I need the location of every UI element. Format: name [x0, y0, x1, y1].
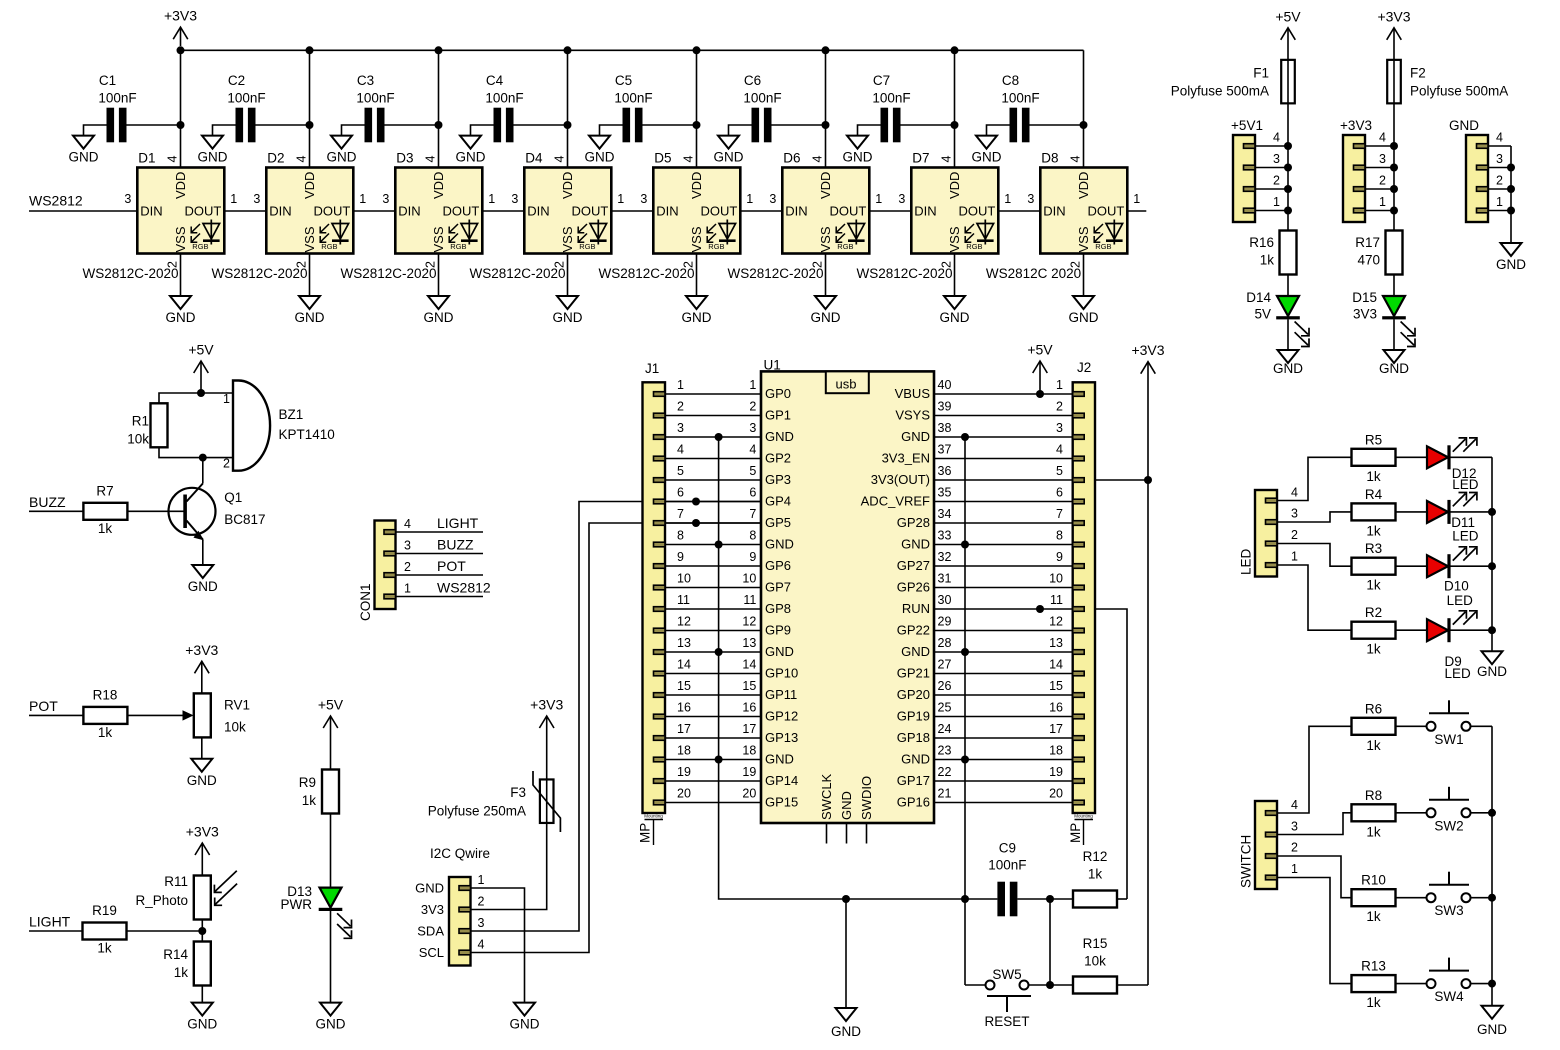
svg-text:3: 3 [1056, 421, 1063, 435]
svg-text:2: 2 [749, 400, 756, 414]
svg-text:VSS: VSS [689, 226, 704, 252]
svg-text:32: 32 [938, 550, 952, 564]
wire SCL [471, 523, 762, 953]
svg-text:GP22: GP22 [897, 623, 930, 638]
svg-text:9: 9 [677, 550, 684, 564]
svg-text:9: 9 [1056, 550, 1063, 564]
svg-text:DIN: DIN [785, 204, 807, 219]
svg-text:WS2812C-2020: WS2812C-2020 [82, 266, 178, 281]
svg-text:3: 3 [640, 192, 647, 206]
junction rail D3 [435, 46, 443, 54]
svg-text:1: 1 [746, 192, 753, 206]
svg-text:VSS: VSS [431, 226, 446, 252]
svg-text:GND: GND [166, 310, 196, 325]
svg-text:VDD: VDD [173, 172, 188, 199]
svg-text:22: 22 [938, 765, 952, 779]
svg-text:POT: POT [29, 698, 58, 714]
svg-text:3: 3 [1496, 152, 1503, 166]
ground connector GND [1501, 243, 1522, 256]
wire D13 to GND [330, 911, 332, 1003]
svg-text:4: 4 [404, 517, 411, 531]
svg-text:GP17: GP17 [897, 773, 930, 788]
svg-text:3: 3 [511, 192, 518, 206]
junction D9 bus [1488, 626, 1496, 634]
wire C5 to GND [600, 125, 623, 136]
J2 pin 20 wire [1073, 800, 1085, 805]
svg-text:3: 3 [898, 192, 905, 206]
junction +5V1 pin 1 [1284, 207, 1292, 215]
junction rail D4 [564, 46, 572, 54]
svg-text:GND: GND [1273, 361, 1303, 376]
usb box U1 [826, 371, 869, 393]
J2 pin 17 wire [1073, 736, 1085, 741]
ground C8 [976, 136, 997, 149]
wire I2C GND pin1 [471, 888, 525, 1003]
svg-text:DOUT: DOUT [829, 204, 866, 219]
svg-text:20: 20 [1049, 787, 1063, 801]
SWITCH pin 3 wire [1266, 832, 1278, 837]
WS2812 chip D7 [911, 168, 998, 254]
svg-text:R11: R11 [164, 874, 188, 889]
wire R12 to RUN rail [1117, 898, 1127, 900]
svg-text:C4: C4 [486, 73, 504, 88]
svg-text:GP28: GP28 [897, 515, 930, 530]
svg-text:D4: D4 [525, 151, 543, 166]
wire C9 junction down to SW5 [1049, 899, 1051, 985]
svg-text:VSS: VSS [302, 226, 317, 252]
svg-text:DIN: DIN [527, 204, 549, 219]
svg-text:GP15: GP15 [765, 795, 798, 810]
svg-text:GND: GND [901, 429, 930, 444]
svg-text:RGB: RGB [966, 242, 982, 251]
svg-text:D3: D3 [396, 151, 413, 166]
svg-text:GND: GND [839, 791, 854, 820]
J2 pin 8 wire [1073, 542, 1085, 547]
svg-text:WS2812: WS2812 [437, 580, 491, 596]
svg-text:11: 11 [743, 593, 756, 607]
J2 pin 1 wire [1073, 392, 1085, 397]
connector J2 [1073, 382, 1095, 813]
wire RUN to R12 branch [1095, 609, 1127, 899]
svg-text:DIN: DIN [1043, 204, 1065, 219]
wire R11 bottom [201, 920, 203, 942]
wire D9 to bus [1450, 629, 1492, 631]
junction right bus / bottom bus [961, 895, 969, 903]
wire VDD drop D6 [825, 50, 827, 167]
svg-text:GND: GND [316, 1017, 346, 1032]
svg-text:100nF: 100nF [872, 91, 910, 106]
wire D3.DOUT [482, 210, 524, 212]
junction VDD/C3 [435, 121, 443, 129]
ground I2C [514, 1003, 535, 1016]
svg-text:C3: C3 [357, 73, 374, 88]
svg-text:1k: 1k [302, 793, 317, 808]
svg-text:SWDIO: SWDIO [859, 776, 874, 820]
transistor Q1 BC817 [169, 488, 216, 535]
svg-text:7: 7 [677, 507, 684, 521]
LED symbol inside D1 [210, 220, 212, 245]
svg-text:I2C Qwire: I2C Qwire [430, 846, 490, 861]
wire LED GND bus [1491, 457, 1493, 651]
junction +5V1 pin 3 [1284, 164, 1292, 172]
wire SW3 to bus [1471, 897, 1493, 899]
svg-text:GND: GND [682, 310, 712, 325]
ground D4 [557, 296, 578, 309]
svg-text:10: 10 [1049, 572, 1063, 586]
ground D14 [1278, 350, 1299, 363]
+3V3 conn pin 2 [1354, 187, 1366, 192]
svg-text:RGB: RGB [192, 242, 208, 251]
emission arrows D15 [1401, 322, 1414, 335]
svg-text:GP9: GP9 [765, 623, 791, 638]
wire R6 to SW1 [1396, 725, 1427, 727]
svg-text:+3V3: +3V3 [1131, 342, 1164, 358]
svg-text:R18: R18 [93, 688, 118, 703]
svg-text:1k: 1k [1366, 578, 1381, 593]
svg-text:GND: GND [188, 579, 218, 594]
LED symbol inside D6 [855, 220, 857, 245]
svg-text:14: 14 [742, 658, 756, 672]
svg-text:WS2812C-2020: WS2812C-2020 [598, 266, 694, 281]
svg-text:GP1: GP1 [765, 408, 791, 423]
junction VDD/C7 [951, 121, 959, 129]
wire D14 to GND [1287, 319, 1289, 350]
svg-text:DOUT: DOUT [700, 204, 737, 219]
svg-text:GP18: GP18 [897, 730, 930, 745]
J1 pin 17 wire [654, 736, 666, 741]
svg-text:R6: R6 [1365, 701, 1382, 716]
J1 pin 5 wire [654, 478, 666, 483]
junction SW3 bus [1488, 894, 1496, 902]
svg-text:R4: R4 [1365, 487, 1383, 502]
svg-text:GP0: GP0 [765, 386, 791, 401]
svg-text:VSS: VSS [173, 226, 188, 252]
svg-text:PWR: PWR [281, 897, 313, 912]
ground C4 [460, 136, 481, 149]
ground D1 [170, 296, 191, 309]
svg-text:R1: R1 [132, 414, 149, 429]
wire F1 to connector [1287, 103, 1289, 231]
junction D10 bus [1488, 562, 1496, 570]
J1 pin 13 wire [654, 650, 666, 655]
svg-text:1k: 1k [1366, 909, 1381, 924]
svg-text:R2: R2 [1365, 605, 1382, 620]
J2 pin 7 wire [1073, 521, 1085, 526]
ground Q1 [192, 565, 213, 578]
svg-text:VDD: VDD [818, 172, 833, 199]
ground R14 [192, 1003, 213, 1016]
svg-text:BUZZ: BUZZ [437, 537, 474, 553]
svg-text:34: 34 [938, 507, 952, 521]
svg-text:SCL: SCL [419, 945, 444, 960]
ground C1 [73, 136, 94, 149]
wire D11 to bus [1450, 511, 1492, 513]
svg-text:2: 2 [1496, 173, 1503, 187]
ground D5 [686, 296, 707, 309]
svg-text:3: 3 [253, 192, 260, 206]
SWITCH pin 2 wire [1266, 854, 1278, 859]
J1 pin 7 wire [654, 521, 666, 526]
svg-text:VDD: VDD [689, 172, 704, 199]
svg-text:5: 5 [677, 464, 684, 478]
wire C4 to VDD [514, 124, 568, 126]
svg-text:26: 26 [938, 679, 952, 693]
svg-text:1: 1 [223, 392, 230, 406]
emission arrows D12 [1453, 439, 1466, 452]
svg-text:R3: R3 [1365, 541, 1382, 556]
svg-text:17: 17 [1049, 722, 1063, 736]
svg-text:3: 3 [404, 539, 411, 553]
svg-text:GND: GND [1379, 361, 1409, 376]
junction J1 GND row 8 [715, 541, 723, 549]
wire D8.DOUT [1127, 210, 1146, 212]
I2C pin 1 GND [459, 886, 471, 891]
svg-text:VSS: VSS [1076, 226, 1091, 252]
svg-text:8: 8 [677, 529, 684, 543]
svg-text:GP13: GP13 [765, 730, 798, 745]
svg-text:KPT1410: KPT1410 [279, 427, 335, 442]
J1 pin 1 wire [654, 392, 666, 397]
junction +5V1 pin 2 [1284, 185, 1292, 193]
wire VDD drop D5 [696, 50, 698, 167]
svg-text:GND: GND [901, 644, 930, 659]
junction VDD/C8 [1080, 121, 1088, 129]
junction J1 GND row 3 [715, 433, 723, 441]
wire SW1 to bus [1471, 725, 1493, 727]
svg-text:2: 2 [677, 400, 684, 414]
wire VDD drop D3 [438, 50, 440, 167]
svg-text:R19: R19 [92, 903, 117, 918]
svg-text:GP11: GP11 [765, 687, 797, 702]
J2 pin 12 wire [1073, 628, 1085, 633]
svg-text:GND: GND [1496, 257, 1526, 272]
ground center [836, 1008, 857, 1021]
junction U1 GND row 8 [961, 541, 969, 549]
svg-text:6: 6 [1056, 486, 1063, 500]
wire Q1 emitter to GND [202, 540, 204, 566]
svg-text:R7: R7 [96, 484, 113, 499]
svg-text:DIN: DIN [656, 204, 678, 219]
J2 pin 6 wire [1073, 499, 1085, 504]
svg-text:GP8: GP8 [765, 601, 791, 616]
svg-text:GND: GND [765, 752, 794, 767]
J1 pin 16 wire [654, 714, 666, 719]
J2 pin 2 wire [1073, 413, 1085, 418]
svg-text:C2: C2 [228, 73, 245, 88]
svg-text:4: 4 [1273, 130, 1280, 144]
emission arrows D10 [1453, 548, 1466, 561]
svg-text:SWITCH: SWITCH [1239, 835, 1254, 888]
svg-text:DIN: DIN [269, 204, 291, 219]
SWITCH pin 1 wire [1266, 875, 1278, 880]
svg-text:D10: D10 [1444, 579, 1469, 594]
junction SW2 bus [1488, 809, 1496, 817]
svg-text:12: 12 [742, 615, 756, 629]
connector LED [1255, 490, 1277, 577]
wire D7.VSS to GND [954, 254, 956, 297]
svg-text:J1: J1 [645, 361, 659, 376]
svg-text:DOUT: DOUT [442, 204, 479, 219]
svg-text:+5V: +5V [188, 342, 214, 358]
svg-text:DIN: DIN [398, 204, 420, 219]
svg-text:D5: D5 [654, 151, 671, 166]
svg-text:R8: R8 [1365, 788, 1382, 803]
svg-text:VSYS: VSYS [895, 408, 930, 423]
svg-text:2: 2 [1273, 173, 1280, 187]
svg-text:18: 18 [1049, 744, 1063, 758]
wire D8.VSS to GND [1083, 254, 1085, 297]
svg-text:1: 1 [1133, 192, 1140, 206]
svg-text:D15: D15 [1352, 290, 1377, 305]
wire F2 to connector [1393, 103, 1395, 231]
svg-text:7: 7 [1056, 507, 1063, 521]
svg-text:GND: GND [1069, 310, 1099, 325]
junction SW4 bus [1488, 980, 1496, 988]
svg-text:GND: GND [295, 310, 325, 325]
svg-text:12: 12 [677, 615, 691, 629]
wire F3 bottom to I2C pin2 [471, 823, 547, 910]
svg-text:100nF: 100nF [485, 91, 523, 106]
svg-text:POT: POT [437, 558, 466, 574]
svg-text:2: 2 [478, 895, 485, 909]
svg-text:SW2: SW2 [1434, 818, 1463, 833]
connector J1 [643, 382, 666, 813]
svg-text:R5: R5 [1365, 432, 1382, 447]
svg-text:F3: F3 [510, 785, 526, 800]
svg-text:1k: 1k [97, 941, 112, 956]
WS2812 chip D6 [782, 168, 869, 254]
svg-text:1k: 1k [1366, 469, 1381, 484]
wire RV1 bottom to GND [201, 737, 203, 758]
svg-text:MP: MP [1068, 823, 1083, 843]
svg-text:R14: R14 [163, 947, 188, 962]
LED D10 (red) [1427, 555, 1448, 577]
junction +3V3 pin 4 [1390, 142, 1398, 150]
J1 pin 12 wire [654, 628, 666, 633]
svg-text:LED: LED [1445, 666, 1472, 681]
WS2812 chip D8 [1040, 168, 1127, 254]
svg-text:GND: GND [765, 429, 794, 444]
svg-text:3: 3 [382, 192, 389, 206]
svg-text:GND: GND [1449, 118, 1479, 133]
svg-text:GND: GND [553, 310, 583, 325]
wire right GND bus [964, 437, 966, 899]
WS2812 chip D5 [653, 168, 740, 254]
svg-text:DIN: DIN [140, 204, 162, 219]
svg-text:+3V3: +3V3 [1377, 8, 1410, 24]
WS2812 chip D2 [266, 168, 353, 254]
svg-text:VDD: VDD [947, 172, 962, 199]
svg-text:D6: D6 [783, 151, 800, 166]
svg-text:14: 14 [677, 658, 691, 672]
junction J1 GND row 13 [715, 648, 723, 656]
J1 pin 11 wire [654, 607, 666, 612]
svg-text:WS2812C-2020: WS2812C-2020 [340, 266, 436, 281]
ground D3 [428, 296, 449, 309]
I2C pin 2 3V3 [459, 907, 471, 912]
wire SWITCH GND bus [1491, 726, 1493, 1006]
svg-text:4: 4 [424, 156, 438, 163]
svg-text:2: 2 [1291, 841, 1298, 855]
svg-text:SW5: SW5 [992, 967, 1021, 982]
svg-text:SW1: SW1 [1434, 732, 1463, 747]
J1 pin 6 wire [654, 499, 666, 504]
wire R1 bottom [159, 447, 203, 457]
svg-text:10: 10 [742, 572, 756, 586]
svg-text:WS2812C 2020: WS2812C 2020 [986, 266, 1081, 281]
svg-text:17: 17 [742, 722, 756, 736]
svg-text:C8: C8 [1002, 73, 1019, 88]
svg-text:C6: C6 [744, 73, 761, 88]
svg-text:LED: LED [1447, 593, 1474, 608]
svg-text:VDD: VDD [302, 172, 317, 199]
junction +3V3 pin 3 [1390, 164, 1398, 172]
CON1 pin 2 POT [384, 573, 396, 578]
J1 pin 9 wire [654, 564, 666, 569]
svg-text:WS2812C-2020: WS2812C-2020 [469, 266, 565, 281]
ground C2 [202, 136, 223, 149]
svg-text:VBUS: VBUS [895, 386, 931, 401]
svg-text:RGB: RGB [708, 242, 724, 251]
J2 pin 14 wire [1073, 671, 1085, 676]
wire POT to R18 [29, 714, 83, 716]
svg-text:VSS: VSS [818, 226, 833, 252]
wire BZ1 pin2 [203, 457, 233, 459]
junction +3V3 pin 1 [1390, 207, 1398, 215]
svg-text:GP12: GP12 [765, 709, 798, 724]
wire C8 to VDD [1030, 124, 1084, 126]
svg-text:8: 8 [749, 529, 756, 543]
svg-text:BUZZ: BUZZ [29, 494, 66, 510]
svg-text:20: 20 [677, 787, 691, 801]
svg-text:R9: R9 [299, 775, 316, 790]
svg-text:3: 3 [769, 192, 776, 206]
svg-text:4: 4 [1291, 798, 1298, 812]
svg-text:RV1: RV1 [224, 697, 250, 712]
I2C pin 3 SDA [459, 929, 471, 934]
svg-text:19: 19 [1049, 765, 1063, 779]
svg-text:VDD: VDD [1076, 172, 1091, 199]
junction U1 GND row 18 [961, 756, 969, 764]
ground D15 [1384, 350, 1405, 363]
svg-text:3: 3 [478, 916, 485, 930]
junction rail D6 [822, 46, 830, 54]
svg-text:17: 17 [677, 722, 691, 736]
GND conn pin 2 [1477, 187, 1489, 192]
svg-text:MP: MP [638, 823, 653, 843]
svg-text:23: 23 [938, 744, 952, 758]
svg-text:C1: C1 [99, 73, 116, 88]
wire BZ1 pin1 [201, 392, 233, 394]
svg-text:SDA: SDA [417, 924, 444, 939]
J2 pin 10 wire [1073, 585, 1085, 590]
svg-text:RGB: RGB [450, 242, 466, 251]
svg-text:10k: 10k [224, 719, 246, 734]
GND conn pin 1 [1477, 208, 1489, 213]
svg-text:GND: GND [972, 150, 1002, 165]
switch SW1 [1427, 722, 1436, 731]
junction U1 GND row 3 [961, 433, 969, 441]
svg-text:2: 2 [404, 560, 411, 574]
J2 pin 16 wire [1073, 714, 1085, 719]
svg-text:WS2812C-2020: WS2812C-2020 [727, 266, 823, 281]
junction RUN row [1036, 605, 1044, 613]
wire 3V3OUT to rail [1095, 479, 1148, 481]
svg-text:+3V3: +3V3 [164, 8, 197, 24]
wire C1 to GND [84, 125, 107, 136]
J1 pin 2 wire [654, 413, 666, 418]
svg-text:GND: GND [456, 150, 486, 165]
